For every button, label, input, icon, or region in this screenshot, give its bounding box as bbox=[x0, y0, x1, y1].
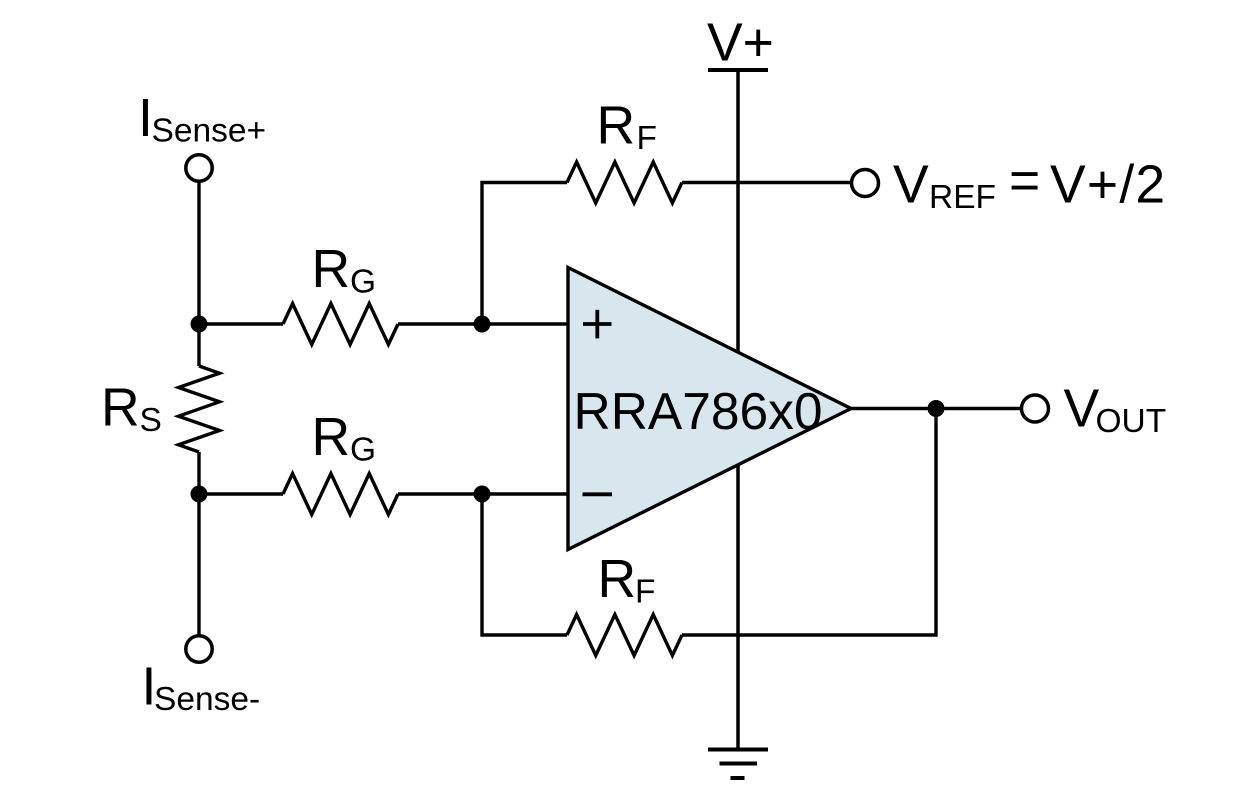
svg-text:V+/2: V+/2 bbox=[1050, 156, 1166, 215]
svg-text:R: R bbox=[598, 550, 637, 609]
svg-text:G: G bbox=[350, 432, 376, 469]
svg-text:V: V bbox=[1064, 380, 1100, 439]
svg-text:REF: REF bbox=[929, 179, 996, 216]
svg-text:Sense-: Sense- bbox=[154, 681, 260, 718]
svg-text:RRA786x0: RRA786x0 bbox=[574, 382, 823, 440]
svg-text:R: R bbox=[312, 240, 351, 299]
svg-text:F: F bbox=[635, 574, 655, 611]
svg-text:F: F bbox=[637, 120, 657, 157]
svg-text:Sense+: Sense+ bbox=[152, 113, 267, 150]
svg-text:OUT: OUT bbox=[1096, 403, 1167, 440]
svg-text:V: V bbox=[893, 156, 929, 215]
svg-text:G: G bbox=[350, 264, 376, 301]
svg-text:S: S bbox=[140, 402, 162, 439]
svg-text:R: R bbox=[101, 379, 140, 438]
svg-text:=: = bbox=[1009, 152, 1040, 211]
svg-text:R: R bbox=[597, 97, 636, 156]
svg-text:V+: V+ bbox=[707, 14, 774, 73]
svg-text:R: R bbox=[312, 408, 351, 467]
